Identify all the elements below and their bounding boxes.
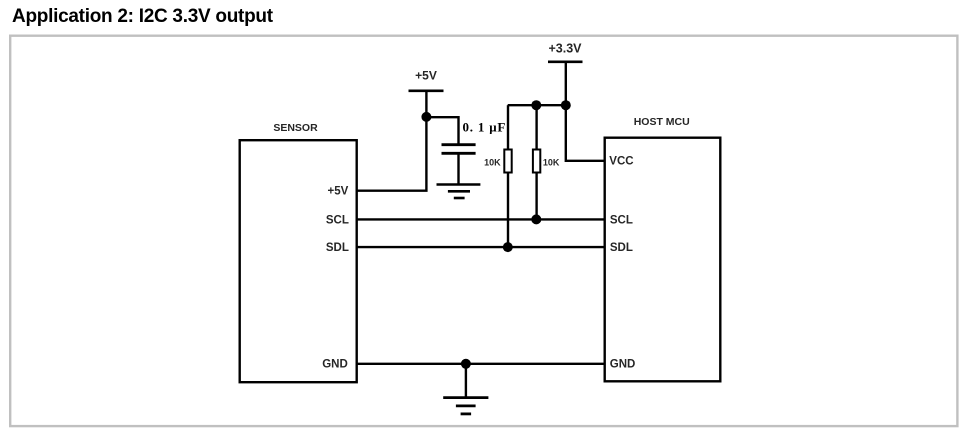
svg-text:0. 1 μF: 0. 1 μF [463, 120, 507, 135]
svg-text:+5V: +5V [328, 186, 349, 198]
svg-text:GND: GND [322, 359, 348, 371]
svg-text:SCL: SCL [326, 214, 349, 226]
svg-text:SENSOR: SENSOR [273, 122, 318, 134]
svg-text:+5V: +5V [415, 68, 437, 82]
svg-text:+3.3V: +3.3V [548, 41, 582, 55]
svg-text:HOST MCU: HOST MCU [634, 116, 690, 128]
svg-text:GND: GND [610, 359, 636, 371]
svg-text:10K: 10K [543, 157, 560, 167]
svg-text:VCC: VCC [609, 156, 633, 168]
svg-text:SDL: SDL [610, 242, 633, 254]
svg-text:SDL: SDL [326, 242, 349, 254]
svg-text:10K: 10K [484, 157, 501, 167]
svg-text:SCL: SCL [610, 214, 633, 226]
svg-text:Application 2: I2C 3.3V output: Application 2: I2C 3.3V output [12, 6, 274, 27]
